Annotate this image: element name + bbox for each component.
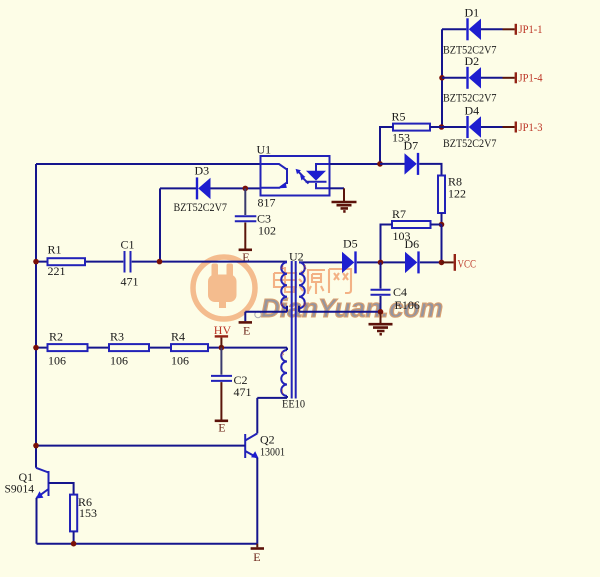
label R2 [49, 330, 63, 344]
label D4 [465, 103, 480, 117]
svg-text:D2: D2 [465, 54, 480, 68]
svg-text:R4: R4 [171, 330, 185, 344]
svg-text:D6: D6 [405, 237, 420, 251]
wire D7 row [380, 164, 442, 176]
transformer U2 primary winding (lower left) [281, 350, 287, 396]
transformer U2 core [292, 261, 296, 399]
svg-text:817: 817 [258, 196, 276, 210]
svg-text:3: 3 [281, 350, 284, 357]
pin 1 (U2) [281, 388, 284, 395]
pin 3 (U2) [281, 350, 284, 357]
label R3 [110, 330, 124, 344]
label D2 [465, 54, 480, 68]
label Q2 [260, 433, 275, 447]
power port E below C2 [215, 382, 228, 434]
label Q1 [19, 470, 34, 484]
wire Q2 base row [36, 445, 245, 447]
wire stem junction to C3 [244, 188, 246, 215]
node junction left rail R2 row [33, 345, 39, 351]
value 103 (R7) [393, 229, 411, 243]
svg-text:D1: D1 [465, 6, 480, 20]
svg-text:JP1-4: JP1-4 [519, 71, 543, 85]
svg-text:1: 1 [281, 388, 284, 395]
wire Q2 emitter down [256, 458, 258, 544]
diode D1 [466, 18, 481, 40]
svg-text:C4: C4 [393, 285, 407, 299]
svg-text:VCC: VCC [458, 256, 477, 270]
svg-text:HV: HV [214, 323, 232, 337]
wire vertical bus x442 top ladder [441, 29, 443, 127]
diode D7 [405, 153, 420, 175]
value BZT52C2V7 (D2) [443, 91, 497, 105]
ground at U1 [332, 188, 357, 211]
svg-text:D3: D3 [195, 163, 210, 177]
diode D2 [466, 67, 481, 89]
value 13001 (Q2) [260, 445, 285, 459]
pin 6 (U2 right) [303, 302, 307, 309]
svg-text:106: 106 [110, 354, 128, 368]
svg-text:106: 106 [171, 354, 189, 368]
svg-text:BZT52C2V7: BZT52C2V7 [174, 200, 228, 214]
label U2 [289, 249, 304, 263]
wire vertical x160 D3 to C1 row [159, 188, 161, 261]
capacitor C1 [125, 251, 131, 273]
wire D3 row to U1 lower-left pin [160, 187, 261, 189]
label D7 [404, 139, 419, 153]
transistor U1 photo-transistor [261, 164, 288, 188]
svg-text:E106: E106 [395, 298, 420, 312]
value 106 (R2) [48, 354, 66, 368]
label C4 [393, 285, 407, 299]
svg-text:C1: C1 [121, 237, 135, 251]
svg-text:D5: D5 [343, 236, 358, 250]
wire U2 lower winding top jog [286, 348, 288, 350]
capacitor C4 [371, 290, 391, 295]
svg-text:221: 221 [48, 264, 66, 278]
value EE10 (U2) [282, 397, 305, 411]
svg-text:471: 471 [121, 275, 139, 289]
resistor R2 [48, 344, 88, 351]
svg-text:JP1-1: JP1-1 [519, 22, 543, 36]
label R7 [392, 207, 406, 221]
svg-text:BZT52C2V7: BZT52C2V7 [443, 136, 497, 150]
label D1 [465, 6, 480, 20]
svg-text:13001: 13001 [260, 445, 285, 459]
svg-text:S9014: S9014 [5, 482, 35, 496]
value 106 (R3) [110, 354, 128, 368]
resistor R3 [109, 344, 149, 351]
node junction x160 on C1 row [157, 259, 163, 265]
wire C1 row [36, 261, 287, 263]
svg-text:R2: R2 [49, 330, 63, 344]
svg-text:5: 5 [303, 265, 306, 272]
pin 6 (U2 left) [281, 302, 285, 309]
node junction left rail / C1 row [33, 259, 39, 265]
node junction R8/R7 [439, 222, 445, 228]
value BZT52C2V7 (D3) [174, 200, 228, 214]
svg-text:E: E [243, 323, 250, 337]
value 817 (U1) [258, 196, 276, 210]
node junction D2 tap [439, 75, 445, 81]
value BZT52C2V7 (D4) [443, 136, 497, 150]
label D5 [343, 236, 358, 250]
svg-text:E: E [218, 420, 225, 434]
label C1 [121, 237, 135, 251]
node junction left rail Q2 base [33, 443, 39, 449]
node junction U1/R5/D7 [377, 161, 383, 167]
ground below C4 [369, 312, 393, 334]
wire bottom rail [37, 543, 258, 545]
wire D5/D6 row [299, 261, 442, 263]
wire D2 row [442, 77, 503, 79]
resistor R4 [171, 344, 208, 351]
wire R2 R3 R4 row [36, 347, 287, 349]
svg-text:E: E [253, 550, 260, 564]
value BZT52C2V7 (D1) [443, 42, 497, 56]
wire secondary winding bottom jog [298, 306, 300, 312]
transistor Q1 [36, 468, 49, 499]
wire aux winding bottom to E [245, 306, 287, 321]
value 122 (R8) [448, 187, 466, 201]
value 153 (R6) [79, 506, 97, 520]
value 102 (C3) [258, 223, 276, 237]
label D6 [405, 237, 420, 251]
node junction HV/C2/R4 [219, 345, 225, 351]
label U1 [257, 143, 272, 157]
value 471 (C2) [234, 385, 252, 399]
wire R8 bottom to R7 node [441, 213, 443, 225]
power port E at bottom rail [251, 544, 264, 564]
pin 4 (U2) [281, 265, 285, 272]
diode D4 [466, 116, 481, 138]
value 106 (R4) [171, 354, 189, 368]
port JP1-3 [503, 120, 543, 134]
WATERMARK [193, 257, 443, 323]
wire D4 row [442, 126, 503, 128]
value 471 (C1) [121, 275, 139, 289]
label R6 [78, 495, 92, 509]
diode D5 [342, 251, 357, 273]
transformer U2 secondary winding (upper right) [299, 262, 305, 308]
wire U1 bottom-right pin to ground [330, 187, 345, 189]
label C2 [234, 373, 248, 387]
node junction D3-U1-C3 [243, 186, 249, 192]
resistor R7 [392, 221, 431, 228]
wire R7 leads and verticals [381, 225, 442, 263]
node junction D6/VCC [439, 260, 445, 266]
op-amp U1 optocoupler box [261, 156, 330, 196]
diode D3 [196, 177, 211, 199]
value 153 (R5) [392, 130, 410, 144]
svg-text:D4: D4 [465, 103, 480, 117]
svg-text:R1: R1 [48, 242, 62, 256]
wire top horizontal from left rail to U1 pin [36, 163, 261, 165]
svg-text:R3: R3 [110, 330, 124, 344]
label C3 [257, 211, 271, 225]
label R8 [448, 175, 462, 189]
label R4 [171, 330, 185, 344]
power port HV [214, 323, 232, 347]
svg-text:106: 106 [48, 354, 66, 368]
label R1 [48, 242, 62, 256]
transformer U2 primary-aux winding (upper left) [281, 262, 287, 308]
node junction D4/R5 tap [439, 124, 445, 130]
svg-text:122: 122 [448, 187, 466, 201]
wire left vertical rail [35, 164, 37, 468]
resistor R8 [438, 176, 445, 214]
svg-text:D7: D7 [404, 139, 419, 153]
port JP1-1 [503, 22, 543, 36]
value S9014 (Q1) [5, 482, 35, 496]
svg-text:153: 153 [79, 506, 97, 520]
power port E (aux winding) [239, 322, 252, 337]
transistor Q2 [245, 433, 258, 458]
light arrows inside U1 [296, 169, 309, 184]
capacitor C2 [211, 376, 232, 381]
node junction R6 bottom rail [71, 541, 77, 547]
svg-text:471: 471 [234, 385, 252, 399]
LED inside U1 [306, 164, 330, 188]
port JP1-4 [503, 71, 543, 85]
svg-text:U1: U1 [257, 143, 272, 157]
power port E below C3 [239, 223, 252, 265]
wire D1 row [442, 28, 503, 30]
svg-text:R7: R7 [392, 207, 406, 221]
wire U1 top-right pin to D7 node [330, 163, 381, 165]
node junction C4/ground [378, 309, 384, 315]
wire stem to C2 [220, 348, 222, 375]
capacitor C3 [235, 216, 256, 221]
pin 5 (U2) [303, 265, 306, 272]
wire Q1 emitter down [36, 498, 38, 544]
wire R5 leads [380, 127, 442, 164]
power port VCC [442, 254, 477, 271]
wire U2 lower winding bottom to Q2 collector [257, 396, 287, 433]
label R5 [392, 109, 406, 123]
resistor R5 [393, 124, 430, 131]
value 221 (R1) [48, 264, 66, 278]
svg-text:U2: U2 [289, 249, 304, 263]
diode D6 [405, 251, 420, 273]
wire Q1 base to R6 [49, 483, 74, 495]
resistor R1 [48, 258, 86, 265]
wire R6 bottom [73, 531, 75, 543]
value E106 (C4) [395, 298, 420, 312]
svg-text:JP1-3: JP1-3 [519, 120, 543, 134]
wire C4 stem [380, 262, 382, 288]
node junction D5/D6/R7/C4 [378, 260, 384, 266]
resistor R6 [70, 495, 77, 532]
wire C4 bottom / secondary return [299, 296, 381, 312]
svg-text:R5: R5 [392, 109, 406, 123]
svg-text:102: 102 [258, 223, 276, 237]
label D3 [195, 163, 210, 177]
